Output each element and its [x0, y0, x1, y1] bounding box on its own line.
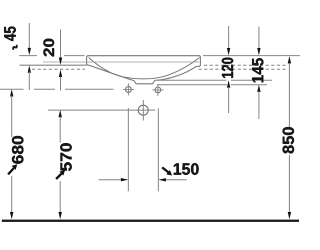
label 120 [222, 58, 233, 78]
dashed line right lower [199, 68, 286, 70]
drain boss bottom extension line [157, 84, 227, 86]
right fixing hole [155, 87, 161, 93]
label 150 [174, 163, 199, 175]
dimension ~45 [28, 23, 30, 50]
washbasin inner bowl curve [89, 58, 200, 79]
label 850 [283, 127, 294, 153]
floor line [2, 220, 299, 222]
oblique arrow 680 [8, 168, 14, 174]
inner bowl bottom extension line [157, 79, 227, 81]
dimension 120 [228, 26, 230, 49]
dimension 680 line [10, 89, 13, 96]
fixing hole level line [0, 88, 24, 90]
washbasin outer profile [87, 56, 201, 84]
washbasin back edge line [43, 61, 199, 63]
label ~45 [4, 27, 16, 41]
rim top extension line left b [64, 55, 85, 57]
label 20 [43, 39, 54, 57]
dimension 850 line [288, 56, 291, 63]
rim top extension line left a [19, 55, 37, 57]
rim bottom extension line left [20, 64, 87, 66]
dimension 150 reference lines [127, 108, 129, 191]
oblique arrow 150 [162, 167, 168, 172]
label 570 [60, 143, 71, 171]
left fixing hole [125, 87, 131, 93]
label 680 [12, 136, 23, 164]
dimension 20 [60, 30, 62, 59]
oblique arrow 570 [56, 174, 62, 180]
dimension 150 arrows [99, 179, 125, 181]
dashed line left lower [32, 68, 85, 70]
dimension 570 line [59, 110, 62, 117]
rim top extension line right [203, 55, 300, 57]
dimension 145 [258, 27, 260, 50]
drain circle [138, 105, 148, 115]
dashed line right upper [204, 64, 286, 66]
label 145 [252, 58, 263, 82]
